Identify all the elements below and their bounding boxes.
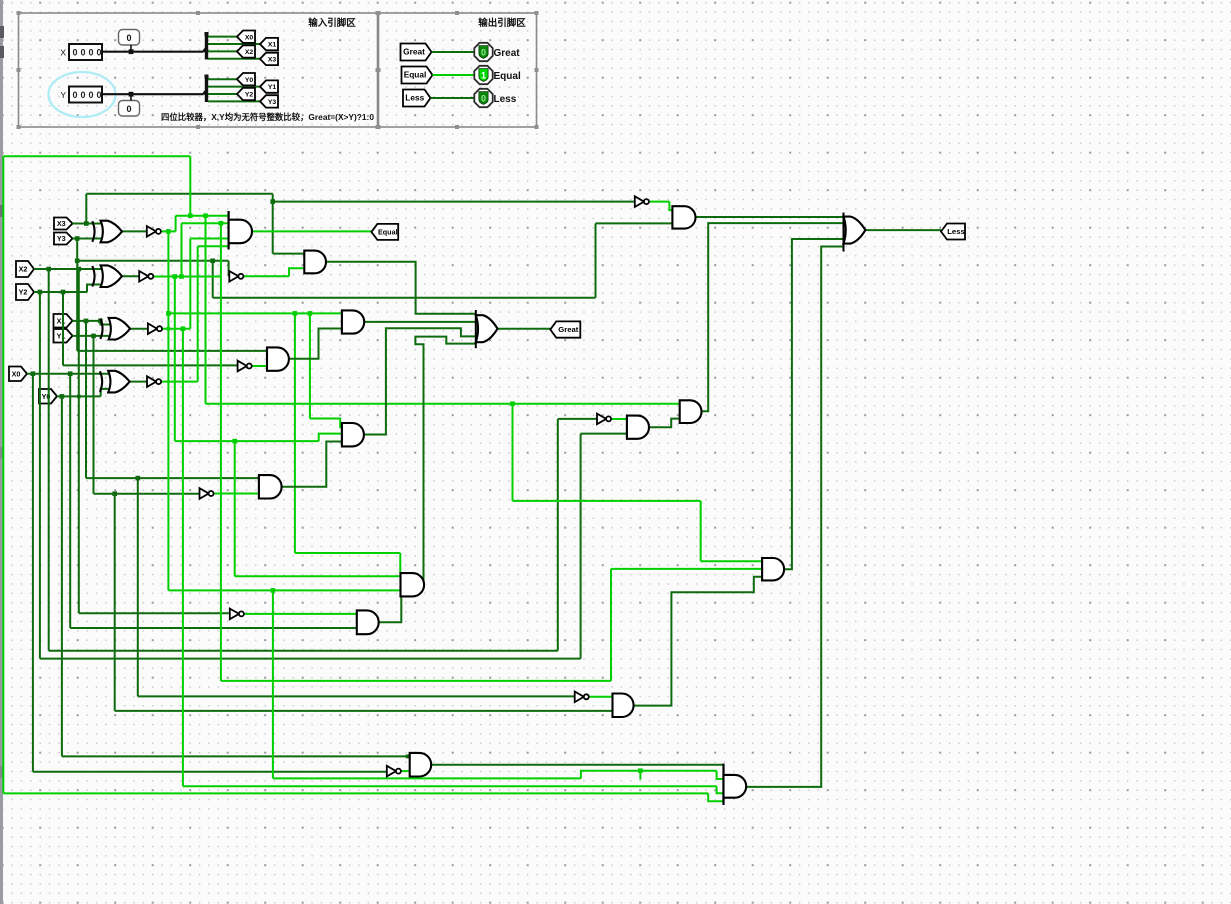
wire E0 into and U6 in4: [198, 245, 229, 247]
svg-text:Y2: Y2: [19, 288, 28, 297]
svg-text:Less: Less: [405, 93, 424, 103]
svg-text:Great: Great: [403, 47, 425, 57]
wire E3 into and U6 in1: [176, 215, 229, 217]
wire E1 long run: [183, 785, 717, 787]
tunnel Y3: [54, 233, 73, 245]
wire loop riser: [189, 156, 191, 216]
wire: [102, 51, 204, 53]
svg-text:X2: X2: [245, 49, 254, 56]
wire Y3 drop: [76, 239, 78, 351]
wire E3 branch to and U14 in1: [168, 312, 342, 314]
inverter U8: [238, 361, 247, 372]
wire E2 into and U24 in2: [611, 568, 762, 570]
wire X1 drop2: [137, 478, 139, 696]
wire: [208, 86, 260, 88]
wire Y3 branch: [77, 260, 228, 262]
wire X1 to xor3: [73, 320, 101, 322]
inverter U2: [147, 226, 156, 237]
wire: [431, 97, 478, 99]
cyan highlight ellipse around Y pin: [49, 72, 116, 117]
inverter U16: [230, 609, 239, 620]
tunnel Equal: [371, 224, 398, 240]
wire X0 run to and U17 lower: [70, 627, 357, 629]
wire X1 drop: [85, 321, 87, 478]
svg-text:输入引脚区: 输入引脚区: [308, 17, 356, 29]
svg-text:Equal: Equal: [378, 228, 398, 237]
wire Y2 drop a: [39, 292, 41, 659]
wire: [433, 74, 478, 76]
tunnel X3 (splitter): [260, 53, 278, 65]
tunnel Y3 (splitter): [260, 95, 278, 107]
tunnel Less-out: [403, 90, 431, 107]
svg-text:Y: Y: [60, 90, 66, 100]
svg-text:Y3: Y3: [57, 234, 66, 243]
wire E2 drop c: [234, 441, 236, 576]
wire xor out: [130, 328, 148, 330]
inverter U25: [387, 766, 396, 777]
wire X3 top run: [86, 193, 272, 195]
and gate U17: [357, 610, 379, 634]
svg-text:0: 0: [126, 104, 131, 114]
inverter U20: [597, 414, 606, 425]
tunnel Less: [941, 224, 965, 240]
svg-text:0: 0: [88, 48, 93, 58]
wire Equal output run: [252, 230, 371, 232]
and gate U29: [722, 764, 724, 805]
and gate U28: [680, 400, 702, 423]
xor gate U1 (X3^Y3): [101, 221, 122, 243]
wire E3 drop c2: [700, 501, 702, 561]
wire E2 riser: [610, 569, 612, 681]
svg-text:Equal: Equal: [494, 71, 521, 82]
wire xor out: [123, 275, 139, 277]
tunnel X3: [54, 218, 73, 230]
output pin Great: [474, 43, 492, 61]
and gate U13: [672, 206, 695, 228]
wire into NOT U20: [558, 418, 597, 420]
and gate U14: [342, 310, 364, 333]
wire loop left edge: [2, 156, 4, 793]
wire X0 drop b: [69, 374, 71, 628]
wire Y2 to xor2: [34, 291, 87, 293]
wire E2 long run: [221, 680, 611, 682]
wire NOT U7 out: [244, 275, 289, 277]
wire Y2 riser a: [580, 434, 582, 659]
svg-text:Great: Great: [494, 48, 521, 59]
wire E2 into and U19 in1: [235, 575, 401, 577]
svg-text:X3: X3: [268, 57, 277, 64]
input pin Y: [69, 87, 102, 103]
wire E0 from NOT U5: [161, 381, 198, 383]
svg-text:X0: X0: [12, 369, 21, 378]
wire E2 run b: [175, 440, 319, 442]
wire: [208, 58, 260, 60]
wire Y1 run to NOT U10: [94, 493, 200, 495]
tunnel X1: [54, 314, 73, 328]
wire Y2 drop b: [62, 292, 64, 365]
wire X1 run to NOT U22: [138, 695, 575, 697]
wire loop bottom: [3, 792, 708, 794]
tunnel X2: [16, 261, 34, 277]
wire E3 from NOT U2: [162, 230, 176, 232]
wire: [208, 93, 237, 95]
wire run d: [295, 552, 400, 554]
wire Y3 drop2: [212, 261, 214, 298]
wire E2 drop b: [174, 277, 176, 442]
window left border strip: [0, 0, 3, 904]
wire drop e: [309, 313, 311, 418]
svg-text:0: 0: [72, 48, 77, 58]
wire Y3 to and T8: [77, 350, 267, 352]
wire Y1 run to and U23 lower: [115, 710, 613, 712]
wire E3 up leg: [175, 216, 177, 232]
wire and U14 out to or U15: [364, 321, 476, 323]
wire Y3 long run: [213, 297, 596, 299]
tunnel Equal-out: [402, 67, 433, 84]
wire loop top: [3, 155, 190, 157]
svg-text:0: 0: [126, 33, 131, 43]
wire: [208, 50, 237, 52]
tunnel Great-out: [401, 44, 432, 61]
or gate U30 (Less): [843, 213, 845, 252]
wire E1 from NOT U4: [161, 328, 190, 330]
svg-text:Y1: Y1: [57, 331, 66, 340]
tunnel Y1 (splitter): [260, 80, 278, 92]
wire X2 run b to NOT U16: [79, 612, 229, 614]
svg-text:输出引脚区: 输出引脚区: [478, 17, 526, 29]
wire Y3 to xor1: [73, 238, 102, 240]
inverter U3: [139, 271, 148, 282]
wire Y0 run to and U26 upper: [62, 755, 410, 757]
tunnel Y2 (splitter): [237, 88, 255, 100]
inverter U4: [148, 323, 157, 334]
wire X3 drop to and T3: [272, 194, 274, 254]
wire NOT U10 out: [214, 493, 259, 495]
wire or U15 out to Great: [498, 328, 551, 330]
and gate U21: [627, 416, 649, 439]
xor gate U1b (X2^Y2): [101, 265, 122, 287]
and gate U19: [401, 573, 425, 596]
wire drop to NOT U7: [228, 261, 230, 277]
xor gate U1d (X0^Y0): [108, 371, 129, 393]
output area box: [379, 13, 537, 127]
wire E3 drop b: [205, 216, 207, 404]
wire E1 into and U6 in3: [190, 238, 228, 240]
svg-text:0: 0: [80, 48, 85, 58]
and gate U26: [410, 753, 431, 777]
selection handles: [17, 11, 21, 15]
wire: [208, 43, 260, 45]
wire xor out: [130, 381, 147, 383]
wire X2 drop a: [48, 269, 50, 651]
tunnel Great: [550, 321, 580, 337]
net E3 branch row (bright green): [166, 311, 171, 316]
wire NOT U22 out: [588, 696, 612, 698]
wire NOT U25 out: [401, 770, 410, 772]
wire X3 branch to NOT U12: [273, 201, 635, 203]
wire into and U13 lower: [596, 222, 673, 224]
wire stub: [639, 771, 641, 780]
wire run f1: [273, 777, 581, 779]
and gate U23: [613, 694, 634, 718]
wire or U30 out to Less: [865, 229, 941, 231]
wire: [130, 94, 132, 100]
wire drop f: [272, 590, 274, 778]
inverter U22: [575, 692, 584, 703]
wire and U26 out to and U29 bar: [431, 764, 723, 766]
svg-text:Less: Less: [494, 94, 517, 105]
tunnel X0: [9, 367, 27, 382]
wire drop d: [294, 313, 296, 553]
wire E3 long run to and U28: [206, 403, 680, 405]
wire Y3 riser: [595, 223, 597, 297]
wire: [208, 100, 260, 102]
and gate U6 (Equal): [228, 211, 230, 250]
svg-text:1: 1: [481, 70, 486, 80]
svg-text:0: 0: [96, 48, 101, 58]
wire Y0 drop: [61, 396, 63, 756]
svg-text:X1: X1: [268, 42, 277, 49]
and gate T3: [304, 251, 326, 274]
tunnel Y0 (splitter): [237, 73, 255, 85]
svg-text:0: 0: [481, 93, 486, 103]
svg-text:Y2: Y2: [245, 92, 254, 99]
wire NOT U12 out: [649, 201, 669, 203]
wire X2 to xor2: [34, 268, 102, 270]
output pin Less: [474, 89, 492, 107]
wire Y2 run a: [40, 658, 581, 660]
svg-text:X3: X3: [57, 219, 66, 228]
wire X2 riser a: [557, 419, 559, 651]
tunnel X2 (splitter): [237, 45, 255, 57]
wire X1 run to and U9: [86, 477, 259, 479]
wire: [208, 78, 237, 80]
wire into and U21 lower: [581, 433, 627, 435]
wire E2 from NOT U3: [154, 276, 221, 278]
tunnel X1 (splitter): [260, 38, 278, 50]
wire: [130, 45, 132, 52]
wire Y1 drop2: [114, 494, 116, 711]
svg-text:Great: Great: [558, 325, 579, 334]
wire: [208, 36, 237, 38]
wire Y1 to xor3: [73, 335, 110, 337]
splitter X: [204, 48, 207, 52]
svg-text:Equal: Equal: [404, 70, 427, 80]
inverter U12: [635, 196, 644, 207]
wire E3 drop c: [512, 404, 514, 501]
wire Y1 drop: [93, 336, 95, 494]
wire into and U19 top: [399, 553, 401, 574]
svg-text:四位比较器，X,Y均为无符号整数比较，Great=(X>Y): 四位比较器，X,Y均为无符号整数比较，Great=(X>Y)?1:0: [161, 111, 374, 122]
wire E0 up leg: [197, 246, 199, 381]
and gate U24: [762, 558, 784, 580]
inverter U10: [200, 488, 209, 499]
svg-text:0: 0: [80, 90, 85, 100]
svg-text:Y3: Y3: [268, 99, 277, 106]
wire E3 run to and U19 in2: [168, 589, 400, 591]
wire E3 run c: [513, 500, 701, 502]
wire X0 drop a: [32, 374, 34, 772]
input pin X: [69, 44, 102, 60]
wire X3 riser: [85, 194, 87, 224]
inverter U7: [229, 271, 238, 282]
wire E1 up leg: [189, 239, 191, 329]
wire X0 to xor4: [27, 373, 109, 375]
svg-text:Less: Less: [947, 227, 965, 236]
wire and U13 out to or U30: [696, 216, 844, 218]
tunnel Y0: [39, 389, 57, 404]
svg-text:X0: X0: [245, 34, 254, 41]
xor gate U1c (X1^Y1): [109, 318, 130, 340]
svg-text:X1: X1: [57, 316, 66, 325]
wire Y0 to xor4: [57, 395, 101, 397]
wire E3 into and U24 in1: [701, 560, 762, 562]
and gate T8: [267, 347, 289, 370]
and gate U18: [342, 423, 364, 446]
svg-text:X2: X2: [19, 265, 28, 274]
and gate U9: [259, 475, 282, 498]
svg-text:0: 0: [72, 90, 77, 100]
input area box: [19, 13, 378, 127]
svg-text:0: 0: [481, 47, 486, 57]
inverter U5: [147, 376, 156, 387]
wire E1 main drop: [182, 329, 184, 787]
tunnel Y1: [54, 329, 73, 343]
wire xor U1 out: [122, 230, 147, 232]
wire X0 run to NOT U25: [33, 771, 387, 773]
tunnel Y2: [16, 284, 34, 300]
wire into T3 upper: [273, 253, 305, 255]
wire X2 drop b: [78, 269, 80, 613]
svg-text:X: X: [60, 48, 66, 58]
wire NOT U20 out: [612, 418, 627, 420]
wire X3 to xor1: [73, 223, 102, 225]
wire run to NOT U8: [63, 364, 238, 366]
svg-text:Y1: Y1: [268, 84, 277, 91]
svg-text:0: 0: [96, 90, 101, 100]
wire: [102, 93, 204, 95]
wire E3 main drop: [167, 231, 169, 590]
svg-text:0: 0: [88, 90, 93, 100]
wire E2 main drop: [220, 223, 222, 681]
wire E2 up leg: [181, 223, 183, 276]
wire E2 into and U6 in2: [182, 222, 229, 224]
wire NOT U16 out to and U17: [245, 613, 357, 615]
wire: [432, 51, 478, 53]
splitter Y: [204, 91, 207, 95]
svg-text:Y0: Y0: [245, 77, 254, 84]
probe D on Y wire: [119, 101, 140, 117]
wire X2 run a: [49, 650, 558, 652]
wire NOT U8 out: [252, 365, 267, 367]
output pin Equal: [474, 66, 492, 84]
tunnel X0 (splitter): [237, 31, 255, 43]
probe D on X wire: [119, 30, 140, 46]
or gate U15 (Great): [475, 310, 477, 348]
